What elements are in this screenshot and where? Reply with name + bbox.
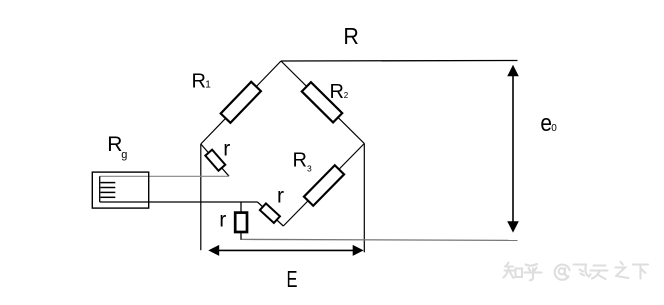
svg-text:0: 0: [551, 123, 557, 134]
svg-text:R: R: [192, 71, 206, 93]
svg-text:R: R: [343, 23, 359, 49]
svg-text:r: r: [219, 209, 226, 232]
svg-text:E: E: [287, 266, 298, 292]
svg-text:R: R: [330, 81, 344, 103]
svg-text:e: e: [540, 110, 552, 137]
svg-text:R: R: [107, 133, 122, 156]
svg-text:R: R: [293, 150, 307, 172]
svg-text:r: r: [223, 138, 230, 161]
svg-text:r: r: [277, 184, 284, 207]
svg-text:3: 3: [307, 164, 312, 174]
svg-text:g: g: [121, 149, 127, 161]
svg-text:2: 2: [344, 91, 349, 100]
svg-text:1: 1: [205, 80, 211, 91]
